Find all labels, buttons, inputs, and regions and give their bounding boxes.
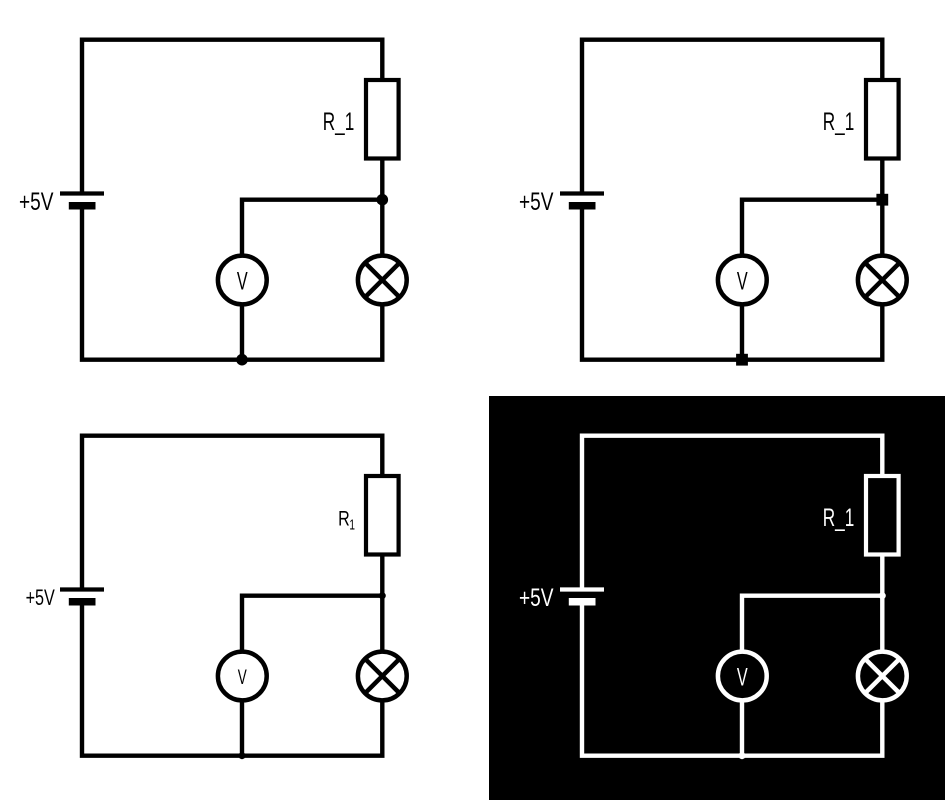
svg-text:V: V xyxy=(737,664,748,692)
wire node to voltmeter top xyxy=(742,596,882,652)
wire node to voltmeter top xyxy=(242,596,382,652)
battery BT2 long plate (+) xyxy=(560,191,604,195)
svg-text:V: V xyxy=(237,268,248,296)
voltmeter V1 circle xyxy=(218,256,267,305)
wire node to voltmeter top xyxy=(242,200,382,256)
wire voltmeter bottom to bottom rail xyxy=(740,700,744,756)
lamp L4 cross xyxy=(865,659,899,693)
lamp L3 circle xyxy=(358,652,407,701)
node square (voltmeter to bottom rail) xyxy=(736,354,748,366)
resistor R_1 xyxy=(866,476,899,555)
wire resistor bottom through node to lamp top xyxy=(880,161,884,257)
lamp L2 cross xyxy=(865,263,899,297)
node dot (resistor/lamp/voltmeter junction) xyxy=(377,194,389,206)
battery BT2 short plate (-) xyxy=(569,202,596,210)
battery BT4 short plate (-) xyxy=(569,598,596,606)
wire voltmeter bottom to bottom rail xyxy=(240,304,244,360)
wire battery- down across bottom to lamp bottom xyxy=(82,602,382,756)
resistor R_1 xyxy=(866,80,899,159)
battery BT3 short plate (-) xyxy=(69,598,96,606)
svg-text:R_1: R_1 xyxy=(823,109,855,136)
battery BT1 short plate (-) xyxy=(69,202,96,210)
svg-text:R_1: R_1 xyxy=(823,505,855,532)
svg-text:R_1: R_1 xyxy=(323,109,355,136)
svg-text:+5V: +5V xyxy=(19,189,54,216)
svg-text:+5V: +5V xyxy=(519,585,554,612)
wire resistor bottom through node to lamp top xyxy=(380,557,384,653)
battery BT3 long plate (+) xyxy=(60,587,104,591)
node dot (voltmeter to bottom rail) xyxy=(239,752,246,759)
wire battery+ up across top to resistor R1 top xyxy=(82,436,382,590)
node dot (voltmeter to bottom rail) xyxy=(236,354,248,366)
svg-text:1: 1 xyxy=(349,517,355,534)
voltmeter V4 circle xyxy=(718,652,767,701)
svg-text:+5V: +5V xyxy=(519,189,554,216)
wire voltmeter bottom to bottom rail xyxy=(740,304,744,360)
wire battery+ up across top to resistor R1 top xyxy=(582,40,882,194)
lamp L1 circle xyxy=(358,256,407,305)
lamp L4 circle xyxy=(858,652,907,701)
battery BT4 long plate (+) xyxy=(560,587,604,591)
svg-text:V: V xyxy=(238,666,247,689)
lamp L3 cross xyxy=(365,659,399,693)
wire battery+ up across top to resistor R1 top xyxy=(82,40,382,194)
wire battery- down across bottom to lamp bottom xyxy=(582,602,882,756)
resistor R_1 xyxy=(366,476,399,555)
battery BT1 long plate (+) xyxy=(60,191,104,195)
wire node to voltmeter top xyxy=(742,200,882,256)
dark background xyxy=(489,396,945,800)
wire resistor bottom through node to lamp top xyxy=(380,161,384,257)
resistor R_1 xyxy=(366,80,399,159)
node square (resistor/lamp/voltmeter junction) xyxy=(876,194,888,206)
wire voltmeter bottom to bottom rail xyxy=(240,700,244,756)
lamp L2 circle xyxy=(858,256,907,305)
node dot (resistor/lamp/voltmeter junction) xyxy=(379,592,386,599)
lamp L1 cross xyxy=(365,263,399,297)
wire battery- down across bottom to lamp bottom xyxy=(82,206,382,360)
voltmeter V2 circle xyxy=(718,256,767,305)
wire battery+ up across top to resistor R1 top xyxy=(582,436,882,590)
svg-text:+5V: +5V xyxy=(26,585,55,610)
node dot (voltmeter to bottom rail) xyxy=(739,752,746,759)
wire resistor bottom through node to lamp top xyxy=(880,557,884,653)
voltmeter V3 circle xyxy=(218,652,267,701)
wire battery- down across bottom to lamp bottom xyxy=(582,206,882,360)
node dot (resistor/lamp/voltmeter junction) xyxy=(879,592,886,599)
svg-text:V: V xyxy=(737,268,748,296)
svg-text:R: R xyxy=(338,505,350,530)
